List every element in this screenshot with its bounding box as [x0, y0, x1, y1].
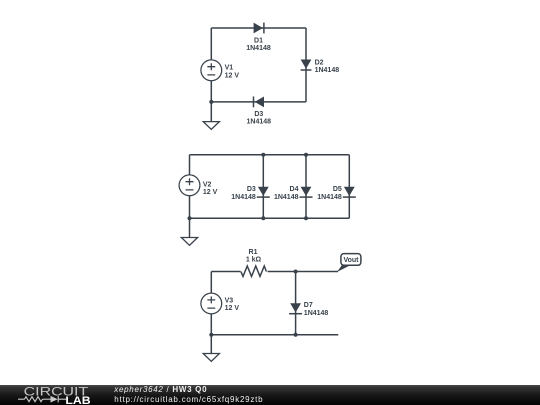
- wire V2 bottom stem to ground: [189, 196, 191, 238]
- wire top circuit: top horizontal: [211, 27, 306, 29]
- svg-text:D3: D3: [247, 186, 256, 193]
- ground (middle circuit): [181, 238, 197, 246]
- wire V3 bottom stem to ground: [210, 314, 212, 354]
- svg-text:http://circuitlab.com/c65xfq9k: http://circuitlab.com/c65xfq9k29ztb: [114, 395, 263, 404]
- svg-text:1N4148: 1N4148: [274, 194, 299, 201]
- svg-text:12 V: 12 V: [225, 73, 240, 80]
- svg-text:12 V: 12 V: [203, 189, 218, 196]
- junction dot middle bottom at V2: [188, 216, 192, 220]
- node Vout flag: [337, 254, 361, 272]
- wire D7 branch vertical: [295, 272, 297, 335]
- voltage source V1: [201, 60, 239, 81]
- wire V3 top stem: [210, 272, 212, 294]
- svg-text:1N4148: 1N4148: [304, 310, 329, 317]
- svg-text:D5: D5: [333, 186, 342, 193]
- svg-text:Vout: Vout: [343, 257, 359, 264]
- junction dot middle bottom at D4: [304, 216, 308, 220]
- wire D5 branch vertical: [348, 155, 350, 218]
- svg-text:D7: D7: [304, 302, 313, 309]
- junction dot bottom wire at V3: [209, 333, 213, 337]
- svg-text:1N4148: 1N4148: [231, 194, 256, 201]
- wire bottom circuit: top horizontal right of R1: [268, 271, 339, 273]
- diode D2: [301, 60, 340, 75]
- wire bottom circuit: top horizontal left of R1: [211, 271, 240, 273]
- svg-text:D2: D2: [315, 60, 324, 67]
- svg-text:D1: D1: [254, 38, 263, 45]
- diode D3 (top circuit): [247, 97, 272, 126]
- diode D7: [289, 302, 328, 317]
- svg-text:D3: D3: [254, 111, 263, 118]
- wire top circuit: bottom horizontal: [211, 101, 306, 103]
- ground (bottom circuit): [203, 354, 219, 362]
- wire D3 branch vertical: [262, 155, 264, 218]
- svg-text:V2: V2: [203, 181, 212, 188]
- svg-text:1N4148: 1N4148: [246, 45, 271, 52]
- svg-text:1N4148: 1N4148: [315, 67, 340, 74]
- diode D3 (middle circuit): [231, 186, 270, 201]
- voltage source V2: [179, 175, 218, 196]
- wire top circuit: right vertical: [305, 28, 307, 102]
- wire middle circuit: bottom horizontal: [190, 217, 350, 219]
- junction dot bottom wire at D7: [294, 333, 298, 337]
- wire V1 top stem: [210, 28, 212, 60]
- resistor R1: [241, 249, 267, 276]
- wire bottom circuit: bottom horizontal: [211, 334, 338, 336]
- svg-text:1 kΩ: 1 kΩ: [246, 257, 262, 264]
- diode D1: [246, 23, 271, 52]
- svg-text:xepher3642 / HW3 Q0: xepher3642 / HW3 Q0: [113, 385, 207, 394]
- junction dot middle bottom at D3: [261, 216, 265, 220]
- ground (top circuit): [203, 122, 219, 130]
- wire V1 bottom stem to ground: [210, 81, 212, 122]
- diode D5: [317, 186, 356, 201]
- footer bar: [0, 385, 540, 405]
- svg-text:D4: D4: [290, 186, 299, 193]
- wire V2 top stem: [189, 155, 191, 175]
- svg-text:1N4148: 1N4148: [317, 194, 342, 201]
- svg-text:LAB: LAB: [65, 395, 90, 405]
- junction dot middle top at D3: [261, 153, 265, 157]
- svg-text:R1: R1: [249, 249, 258, 256]
- svg-text:12 V: 12 V: [225, 305, 240, 312]
- CircuitLab logo schematic line with resistor and diode: [18, 396, 66, 403]
- wire middle circuit: top horizontal: [190, 154, 350, 156]
- junction dot at V1 bottom node: [209, 100, 213, 104]
- diode D4: [274, 186, 313, 201]
- junction dot at R1 output node: [294, 270, 298, 274]
- voltage source V3: [201, 293, 239, 314]
- wire D4 branch vertical: [305, 155, 307, 218]
- junction dot middle top at D4: [304, 153, 308, 157]
- svg-text:V1: V1: [225, 65, 234, 72]
- svg-text:1N4148: 1N4148: [247, 118, 272, 125]
- svg-text:V3: V3: [225, 298, 234, 305]
